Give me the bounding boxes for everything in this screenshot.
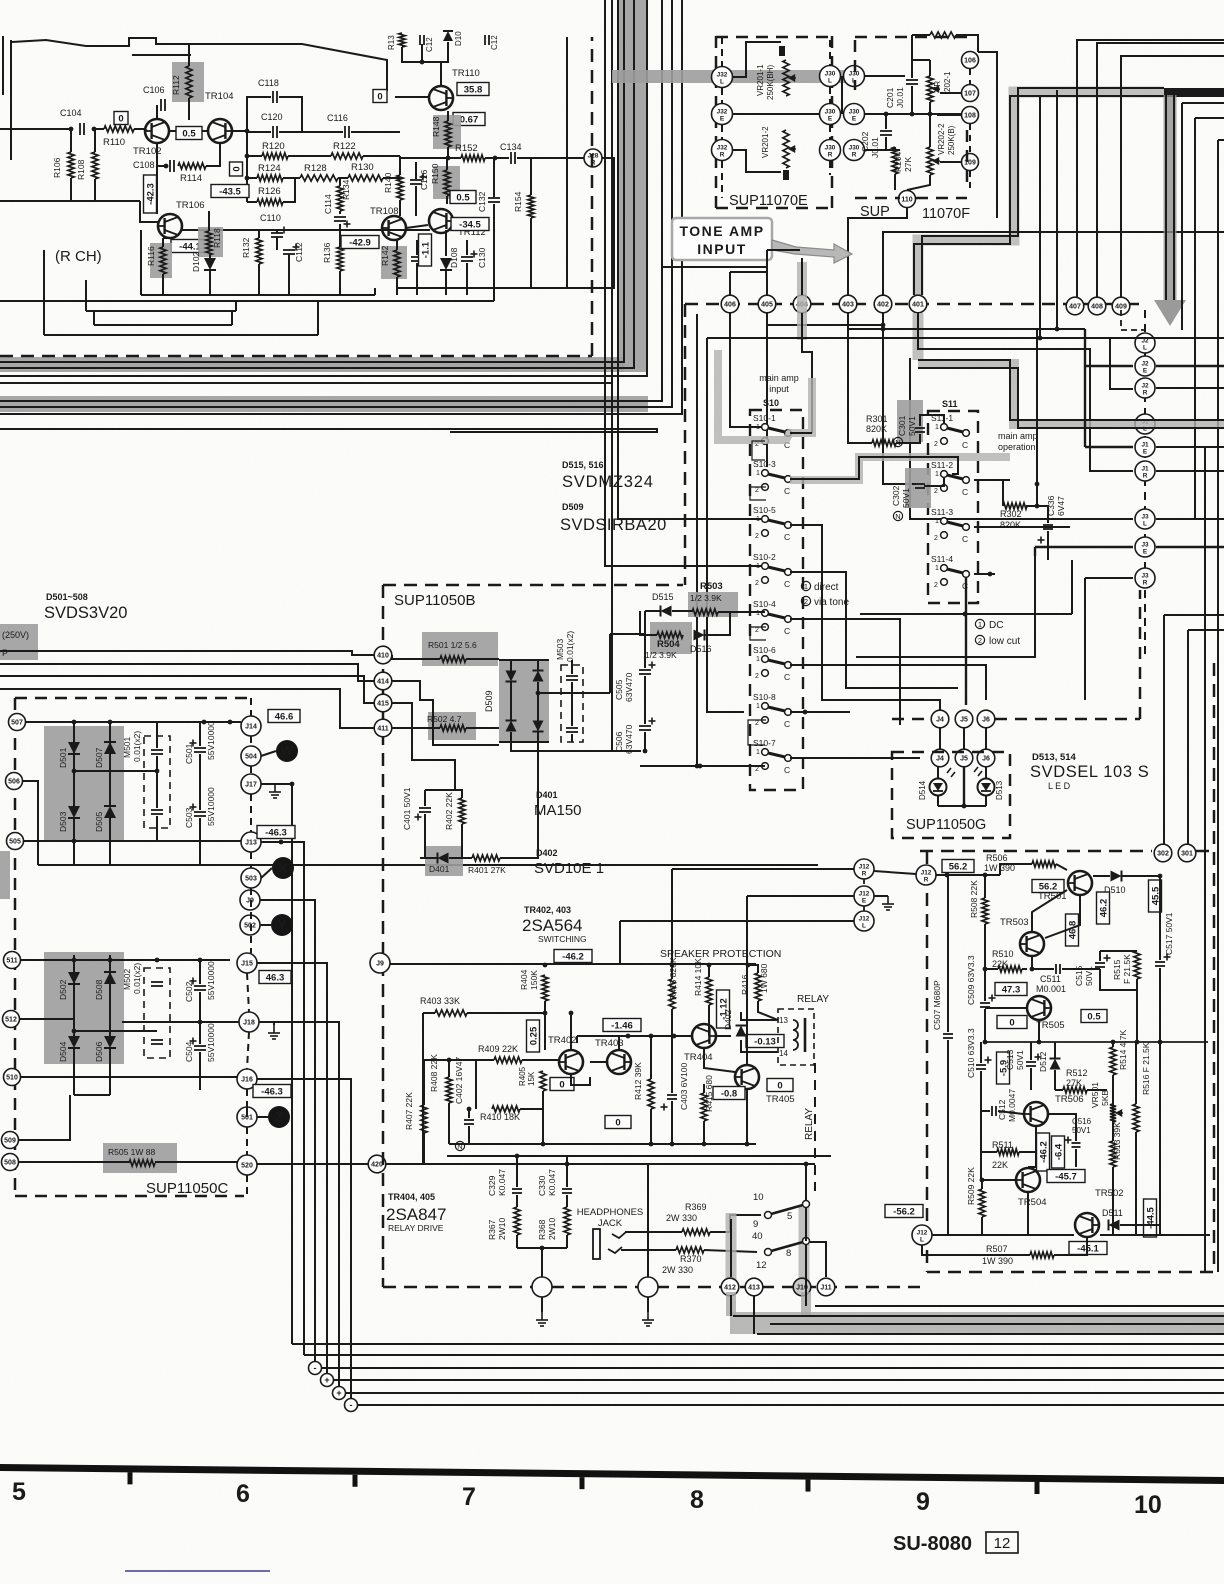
junction	[881, 323, 886, 328]
connector J12 R	[854, 859, 874, 879]
junction	[746, 963, 751, 968]
wire	[132, 54, 191, 56]
wire	[1110, 338, 1133, 389]
wire	[134, 128, 145, 130]
wire	[74, 1094, 110, 1096]
wire	[1159, 876, 1161, 960]
diode D510	[1111, 871, 1122, 882]
wire	[981, 1100, 990, 1111]
speaker output terminal	[638, 1277, 658, 1297]
junction	[983, 873, 988, 878]
wire bus 6	[0, 0, 672, 407]
resistor R150	[433, 166, 460, 199]
wire	[644, 732, 646, 751]
label 56.2	[1032, 880, 1064, 893]
wire	[1182, 102, 1224, 104]
connector J5 row1	[955, 710, 973, 728]
wire	[12, 38, 387, 91]
connector J11	[817, 1278, 835, 1296]
wire	[610, 633, 645, 635]
capacitor C503	[194, 812, 206, 816]
wire	[395, 96, 428, 98]
terminal 506	[6, 773, 23, 790]
wire	[726, 1213, 737, 1285]
junction	[983, 967, 988, 972]
wire	[475, 1060, 477, 1109]
wire	[801, 258, 803, 295]
relay coil	[778, 1009, 814, 1065]
wire rail	[141, 294, 375, 296]
connector J14	[241, 716, 261, 736]
connector J10	[793, 1278, 811, 1296]
ground	[882, 896, 894, 910]
label 0.5 box	[176, 127, 202, 140]
connector J30 R2	[844, 140, 865, 161]
wire	[912, 59, 930, 61]
wire feed S10-5	[618, 0, 765, 519]
connector J2 L	[1135, 333, 1155, 353]
wire	[1047, 531, 1049, 560]
wire bus 415	[0, 676, 374, 703]
wire	[672, 868, 854, 870]
speaker output terminal	[532, 1277, 552, 1297]
junction	[695, 764, 700, 769]
wire	[448, 1103, 450, 1144]
wire vertical to speaker bus	[260, 900, 315, 1368]
label 0	[997, 1016, 1027, 1029]
terminal 404	[793, 295, 811, 313]
label 0.5 box	[450, 191, 476, 204]
wire	[1085, 365, 1133, 367]
junction	[493, 156, 498, 161]
wire	[516, 1235, 518, 1248]
wire	[208, 211, 210, 231]
wire 505	[24, 840, 74, 842]
label -5.9	[997, 1052, 1010, 1084]
ground	[268, 1025, 280, 1039]
resistor R128	[300, 175, 338, 181]
wire bus 5	[0, 0, 662, 401]
wire	[499, 741, 549, 743]
wire bus 1	[0, 0, 624, 362]
wire	[922, 88, 1164, 295]
wire	[402, 42, 448, 62]
junction	[884, 112, 889, 117]
connector J30 E2	[844, 104, 865, 125]
wire	[415, 186, 417, 216]
wire	[1054, 1238, 1087, 1255]
transistor TR405	[735, 1065, 759, 1089]
wire rail	[449, 1143, 756, 1145]
wire	[406, 225, 428, 228]
wire	[423, 1133, 425, 1164]
wire	[416, 240, 418, 255]
wire	[235, 301, 237, 311]
wire	[671, 869, 673, 965]
wire	[317, 300, 319, 335]
wire	[590, 1061, 607, 1063]
terminal 107	[962, 85, 979, 102]
wire shadow S10-1	[718, 350, 812, 440]
diode D512	[1050, 1059, 1061, 1070]
wire	[766, 250, 768, 295]
wire 509 link	[18, 1095, 70, 1140]
wire	[966, 130, 969, 190]
wire	[707, 338, 744, 712]
diode D104	[443, 31, 453, 41]
wire	[705, 613, 730, 635]
label -46.3	[257, 826, 295, 839]
label -44.5	[1144, 1199, 1157, 1237]
wire input R-CH	[0, 128, 71, 130]
transistor TR102	[145, 119, 169, 143]
wire	[922, 1245, 1030, 1255]
resistor R501	[422, 632, 498, 666]
wire	[938, 805, 986, 807]
wire	[1055, 1089, 1063, 1091]
ruler tick	[1035, 1482, 1040, 1494]
wire	[1030, 1068, 1032, 1090]
wire	[422, 1013, 424, 1164]
junction	[1035, 504, 1040, 509]
terminal 413	[745, 1278, 763, 1296]
junction	[72, 720, 77, 725]
wire	[485, 157, 509, 159]
ground	[536, 1312, 548, 1326]
junction	[565, 1162, 570, 1167]
wire	[860, 613, 1072, 615]
wire	[421, 44, 423, 62]
wire	[956, 35, 978, 52]
label 46.2	[1097, 892, 1110, 924]
junction	[1037, 1040, 1042, 1045]
wire	[865, 75, 905, 77]
connector J1 E	[1135, 437, 1155, 457]
wire	[156, 722, 158, 748]
wire	[1112, 1075, 1114, 1141]
junction	[988, 572, 993, 577]
wire	[1156, 365, 1224, 367]
wire	[424, 1060, 476, 1105]
LED D513	[978, 779, 995, 796]
wire	[1054, 1042, 1056, 1058]
wire	[247, 131, 271, 132]
wire S11-3 out	[974, 526, 1070, 528]
terminal 520	[237, 1155, 257, 1175]
wire	[447, 147, 449, 158]
wire	[424, 814, 426, 858]
wire	[716, 36, 832, 39]
wire	[1000, 864, 1032, 875]
wire	[805, 1208, 807, 1241]
wire	[865, 113, 962, 115]
wire	[918, 313, 1133, 471]
wire	[541, 1297, 543, 1312]
junction	[69, 127, 74, 132]
junction	[202, 720, 207, 725]
wire	[157, 143, 168, 166]
junction	[1158, 874, 1163, 879]
wire	[910, 358, 1133, 519]
wire	[767, 249, 800, 251]
transistor TR504	[1016, 1168, 1040, 1192]
wire 301 top	[1188, 629, 1224, 631]
junction	[245, 176, 250, 181]
wire	[746, 1090, 748, 1144]
resistor R154	[528, 195, 534, 218]
wire	[703, 1084, 705, 1093]
wire	[1062, 968, 1100, 970]
wire	[420, 857, 437, 859]
label 0	[767, 1079, 793, 1092]
terminal 302	[1154, 844, 1172, 862]
terminal 508	[2, 1154, 19, 1171]
resistor R116	[150, 243, 172, 278]
wire	[829, 40, 831, 66]
wire	[1056, 864, 1067, 870]
wire	[466, 240, 468, 255]
resistor R140	[397, 175, 403, 200]
label 56.2	[942, 860, 974, 873]
wire	[609, 634, 611, 693]
wire	[741, 1012, 778, 1020]
capacitor C122	[420, 35, 424, 45]
wire	[258, 264, 260, 295]
connector J3 R	[1135, 568, 1155, 588]
wire	[927, 1271, 1214, 1274]
wire	[790, 619, 900, 725]
wire	[246, 1089, 248, 1107]
wire	[537, 660, 539, 671]
wire	[984, 969, 986, 1001]
junction	[198, 1020, 203, 1025]
wire	[644, 634, 646, 668]
wire	[620, 920, 854, 922]
junction	[279, 840, 284, 845]
wire	[155, 1161, 237, 1163]
wire heavy bus with arrow	[1164, 88, 1224, 97]
wire	[440, 62, 442, 85]
wire	[645, 610, 660, 612]
wire bus 3	[0, 0, 647, 376]
wire	[43, 250, 45, 335]
wire	[542, 1091, 544, 1109]
wire bus shadow	[0, 357, 624, 372]
wire	[1056, 90, 1058, 330]
wire dashed R-CH boundary	[0, 355, 592, 358]
wire	[576, 1036, 578, 1043]
terminal 401	[909, 295, 927, 313]
wire	[493, 158, 495, 197]
wire	[466, 658, 499, 660]
wire	[156, 105, 158, 119]
junction	[881, 327, 886, 332]
label 35.8	[457, 83, 489, 96]
wire	[733, 150, 781, 172]
connector J9 mid	[370, 953, 390, 973]
junction	[1035, 482, 1040, 487]
connector J30 L2	[844, 66, 865, 87]
wire	[467, 1012, 545, 1014]
wire	[894, 147, 896, 150]
wire	[984, 1009, 986, 1042]
label direct	[801, 581, 810, 590]
wire	[94, 129, 96, 152]
junction	[108, 720, 113, 725]
wire	[261, 868, 272, 878]
wire 520 rail	[257, 1163, 815, 1165]
junction	[72, 839, 77, 844]
wire	[339, 211, 341, 214]
resistor R401	[472, 855, 500, 861]
wire	[766, 325, 768, 467]
label -43.5	[211, 185, 249, 198]
wire	[570, 1013, 572, 1049]
wire	[730, 271, 767, 273]
wire	[644, 611, 646, 640]
wire bridge tap	[74, 1030, 157, 1032]
label 0 box	[230, 162, 243, 176]
wire 302 top	[1164, 614, 1224, 616]
wire	[748, 720, 766, 745]
wire vertical to speaker bus	[257, 963, 327, 1380]
wire	[250, 736, 252, 746]
junction	[910, 112, 915, 117]
wire	[571, 734, 573, 742]
wire	[965, 578, 967, 705]
capacitor C501	[194, 748, 206, 752]
wire	[247, 155, 262, 157]
wire	[980, 1042, 982, 1063]
wire	[400, 157, 461, 159]
connector J12 R protection	[916, 865, 936, 885]
label -46.3	[253, 1085, 291, 1098]
wire	[733, 113, 826, 115]
wire	[140, 201, 158, 222]
wire rail	[0, 300, 494, 302]
wire	[522, 1059, 558, 1061]
wire	[733, 1315, 1224, 1317]
module box S10	[750, 410, 803, 790]
wire	[704, 1250, 757, 1252]
junction	[198, 958, 203, 963]
wire	[169, 130, 208, 132]
wire 415	[392, 703, 455, 790]
wire	[912, 483, 916, 485]
headphones jack	[593, 1229, 626, 1259]
wire	[716, 207, 832, 210]
wire	[747, 895, 854, 897]
junction	[1038, 336, 1043, 341]
wire bus 8	[0, 429, 657, 432]
wire	[984, 924, 986, 969]
junction	[983, 1040, 988, 1045]
wire	[969, 171, 971, 190]
junction	[72, 1029, 77, 1034]
transistor TR112	[429, 209, 453, 233]
wire	[259, 1022, 274, 1025]
wire bus 7	[0, 0, 682, 414]
wire	[345, 1392, 1224, 1394]
wire	[741, 1040, 778, 1052]
wire	[918, 360, 1224, 420]
wire	[511, 742, 641, 751]
wire to J18	[122, 1021, 239, 1023]
wire	[799, 1207, 810, 1285]
wire	[538, 692, 610, 694]
terminal 510	[4, 1069, 21, 1086]
wire	[671, 965, 673, 979]
wire	[981, 1180, 983, 1189]
wire	[383, 584, 683, 587]
wire	[969, 124, 971, 153]
wire	[247, 201, 257, 203]
wire	[109, 1048, 111, 1095]
wire	[1084, 578, 1086, 700]
junction	[1111, 1040, 1116, 1045]
wire	[246, 132, 248, 202]
wire	[856, 556, 1035, 657]
diode D515	[661, 606, 672, 617]
wire	[805, 1277, 807, 1306]
wire	[73, 818, 75, 865]
wire	[916, 197, 967, 200]
wire	[863, 879, 865, 887]
label page 12	[986, 1532, 1018, 1553]
resistor R203	[930, 32, 956, 38]
resistor R142	[381, 246, 407, 279]
junction	[649, 1142, 654, 1147]
resistor R120	[262, 153, 288, 159]
resistor R504	[650, 622, 692, 654]
connector J1 R	[1135, 461, 1155, 481]
wire	[2, 36, 4, 95]
wire	[907, 175, 930, 190]
wire	[936, 874, 1000, 876]
diode D108	[440, 258, 452, 270]
connector J32 L	[712, 67, 733, 88]
wire frame	[707, 337, 1224, 339]
wire	[276, 230, 278, 233]
wire	[913, 313, 924, 360]
wire	[1120, 1225, 1160, 1235]
wire	[885, 137, 887, 150]
wire	[199, 1052, 201, 1090]
resistor R126	[257, 199, 283, 205]
wire	[542, 1109, 544, 1144]
wire	[939, 728, 941, 749]
wire	[920, 415, 944, 426]
terminal 406	[721, 295, 739, 313]
wire	[250, 698, 252, 716]
wire	[721, 161, 723, 198]
wire	[468, 1109, 470, 1118]
resistor R132	[256, 238, 262, 264]
label TONE AMP INPUT callout	[672, 218, 852, 263]
wire	[963, 767, 965, 806]
ruler tick	[580, 1477, 585, 1489]
resistor R503	[688, 592, 738, 617]
wire	[1122, 875, 1160, 877]
wire	[423, 1012, 435, 1014]
terminal 505	[7, 833, 24, 850]
wire	[449, 857, 472, 859]
wire	[499, 659, 549, 661]
wire	[932, 1234, 1074, 1236]
wire	[647, 1297, 649, 1312]
resistor R152	[461, 155, 485, 161]
wire	[912, 34, 930, 36]
